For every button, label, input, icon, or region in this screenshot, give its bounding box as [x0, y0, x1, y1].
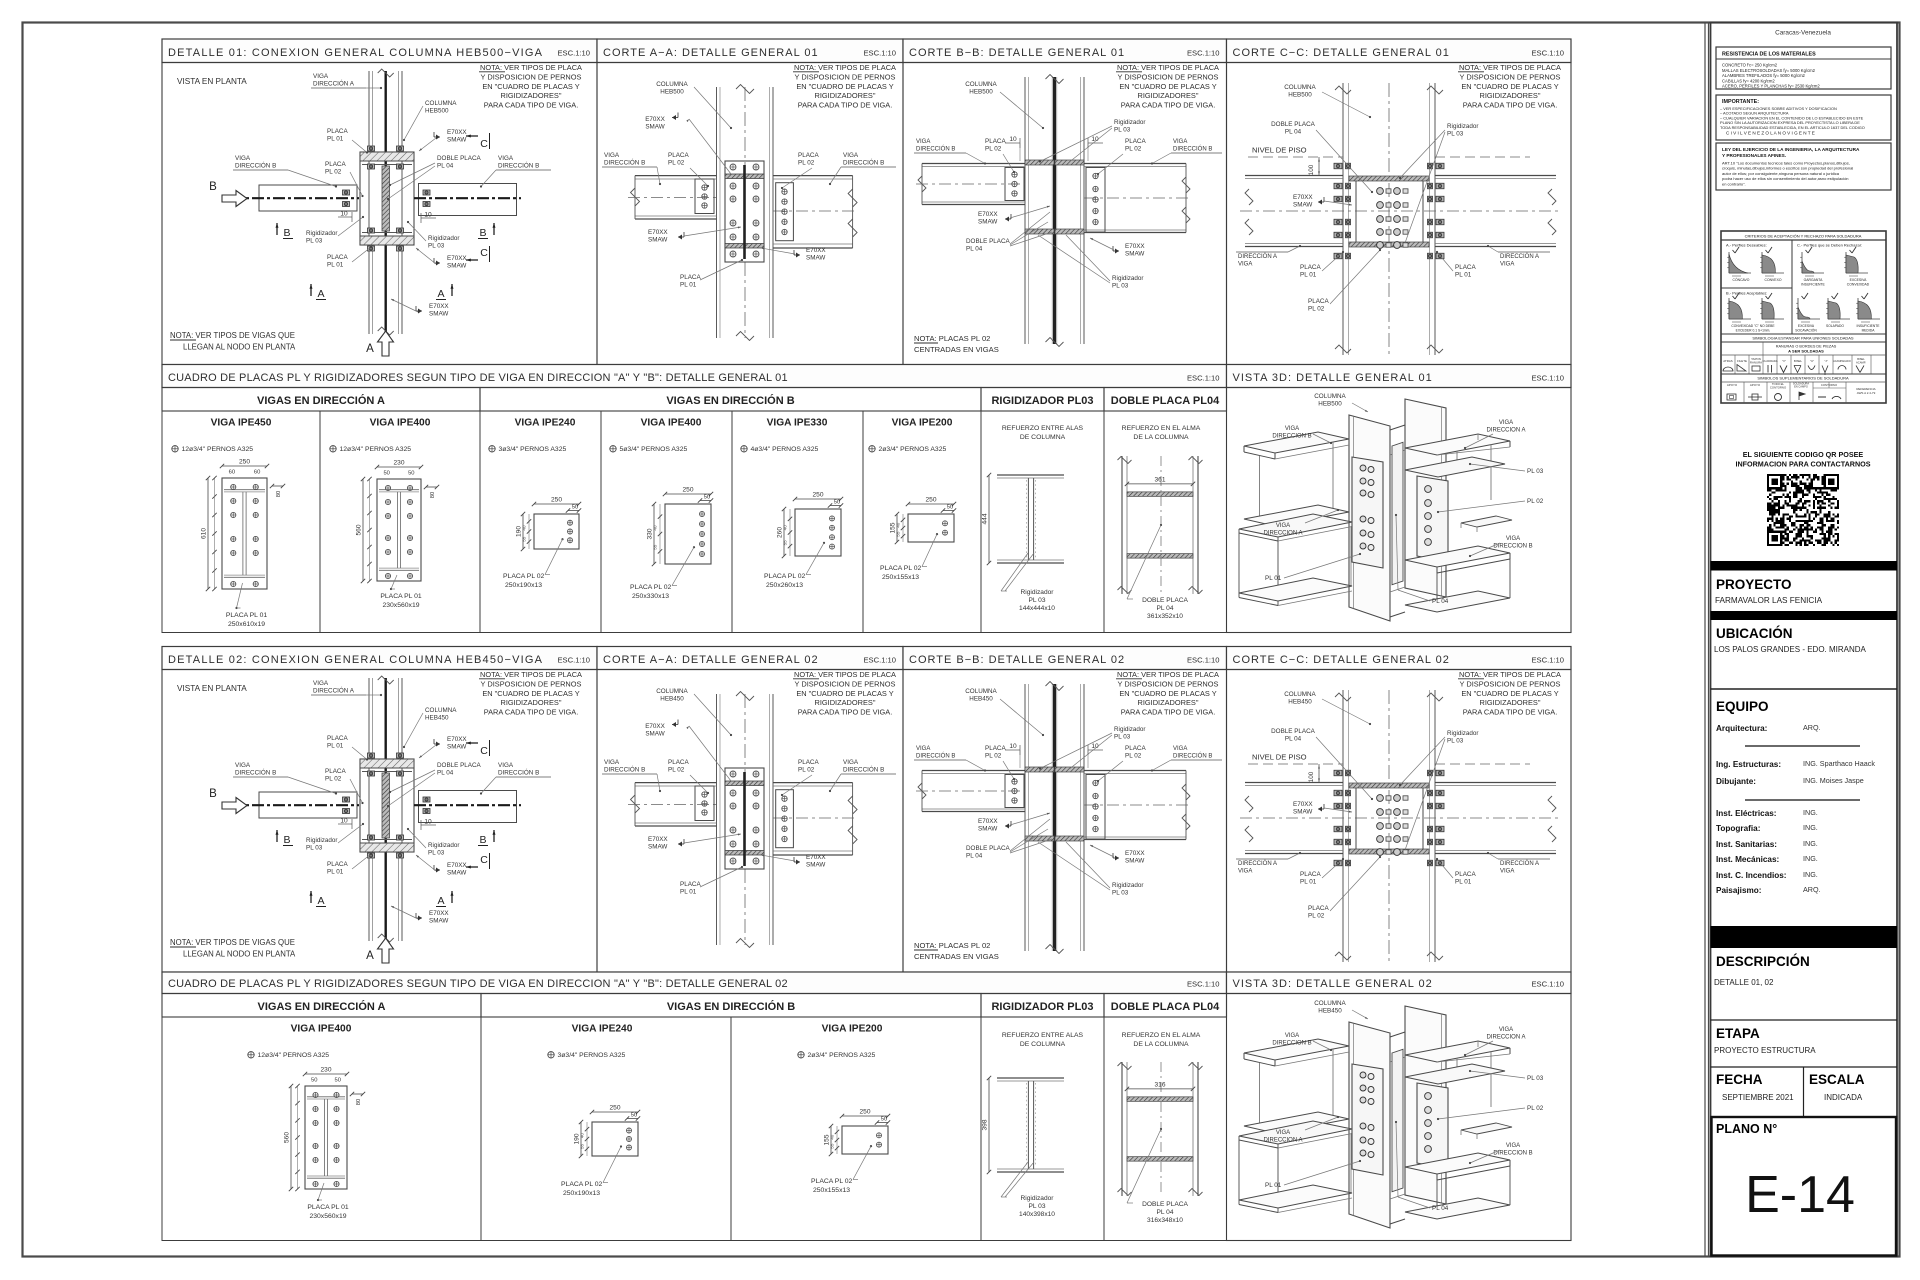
- hex bolts on placa PL01 bottom: [368, 835, 375, 840]
- svg-text:55: 55: [522, 536, 527, 542]
- beam top flange left (corte C-C): [1245, 175, 1343, 177]
- svg-text:VIGA IPE200: VIGA IPE200: [892, 418, 953, 429]
- weld profiles C row 1: [1806, 250, 1809, 253]
- svg-text:PLACA: PLACA: [327, 861, 348, 868]
- svg-text:SMAW: SMAW: [806, 862, 825, 869]
- lower-left shelf plate PL03 (3d): [1239, 1121, 1352, 1144]
- nivel de piso dashed line: [1248, 763, 1343, 765]
- section mark B left: [276, 223, 278, 235]
- svg-text:NOTA: VER TIPOS DE VIGAS: NOTA: VER TIPOS DE VIGAS QUE: [170, 938, 295, 947]
- svg-text:55: 55: [896, 531, 901, 537]
- svg-text:PL 01: PL 01: [327, 869, 344, 876]
- hex bolts left beam: [343, 190, 350, 195]
- label rigidizador cell: [1001, 553, 1028, 591]
- svg-text:ACAMPANADO: ACAMPANADO: [1833, 360, 1851, 363]
- svg-text:HEB450: HEB450: [660, 696, 684, 703]
- column web dark hatched (corte B-B): [1053, 684, 1056, 951]
- column flange pair left: [1121, 1062, 1123, 1196]
- svg-text:RESISTENCIA DE LOS MATERIAL: RESISTENCIA DE LOS MATERIALES: [1722, 52, 1816, 58]
- svg-text:PLACA: PLACA: [680, 274, 701, 281]
- svg-text:PLACA PL 02: PLACA PL 02: [561, 1181, 603, 1188]
- column break marks: [378, 676, 394, 684]
- title block frame: [1711, 23, 1898, 1257]
- svg-text:RIGIDIZADORES": RIGIDIZADORES": [1138, 91, 1199, 100]
- svg-text:PARA CADA TIPO DE VIGA.: PARA CADA TIPO DE VIGA.: [1463, 708, 1558, 717]
- label rigidizador cell: [1001, 1162, 1028, 1197]
- svg-text:PL 03: PL 03: [1527, 468, 1544, 475]
- right plate PL02 with bolts (3d): [1417, 1083, 1448, 1169]
- dimension 250 top: [534, 503, 579, 505]
- dimension height left: [896, 514, 898, 542]
- svg-text:250: 250: [925, 497, 936, 504]
- svg-text:50: 50: [572, 505, 578, 511]
- svg-text:DIRECCIÓN B: DIRECCIÓN B: [498, 768, 539, 777]
- svg-text:SOLAPADO: SOLAPADO: [1826, 324, 1844, 328]
- svg-text:PLACA: PLACA: [325, 161, 346, 168]
- hex bolts on right column flange (corte C-C): [1428, 163, 1433, 169]
- svg-text:RIGIDIZADORES": RIGIDIZADORES": [1480, 91, 1541, 100]
- section mark B left: [276, 830, 278, 842]
- svg-text:EN "CUADRO DE PLACAS Y: EN "CUADRO DE PLACAS Y: [1461, 689, 1558, 698]
- beam direction B left center line (dark): [231, 197, 359, 199]
- placa PL02 right bolts (corte B-B): [1086, 775, 1105, 840]
- svg-text:50: 50: [311, 1078, 317, 1084]
- svg-text:PARA CADA TIPO DE VIGA.: PARA CADA TIPO DE VIGA.: [1121, 101, 1216, 110]
- row2 vista3d frame: [1227, 388, 1572, 633]
- svg-text:250: 250: [682, 487, 693, 494]
- svg-text:DIRECCIÓN B: DIRECCIÓN B: [916, 753, 955, 760]
- rigidizador strips top (hatched): [1025, 767, 1054, 772]
- svg-text:A: A: [317, 288, 324, 300]
- svg-text:VIGA IPE400: VIGA IPE400: [641, 418, 702, 429]
- svg-text:Y DISPOSICION DE PERNOS: Y DISPOSICION DE PERNOS: [795, 679, 896, 688]
- svg-text:VIGA: VIGA: [1499, 1027, 1513, 1033]
- svg-text:DIRECCIÓN A: DIRECCIÓN A: [313, 79, 355, 88]
- svg-text:NOTA: PLACAS PL 02: NOTA: PLACAS PL 02: [914, 334, 990, 343]
- svg-text:ING.: ING.: [1803, 839, 1818, 848]
- svg-text:ARQ.: ARQ.: [1803, 885, 1821, 894]
- svg-text:250: 250: [812, 492, 823, 499]
- center dashed line doble cell: [1160, 1062, 1162, 1196]
- svg-text:230x560x19: 230x560x19: [309, 1213, 346, 1220]
- svg-text:"V": "V": [1782, 359, 1786, 363]
- I-beam flanges inside plate: [224, 489, 265, 491]
- placa PL01 top (hatched): [360, 152, 414, 161]
- doble placa strips hatched: [1127, 492, 1193, 497]
- importante box: [1716, 95, 1891, 140]
- svg-text:Rigidizador: Rigidizador: [1112, 275, 1144, 282]
- svg-text:PL 04: PL 04: [1157, 605, 1174, 612]
- svg-text:BISEL: BISEL: [1857, 357, 1865, 361]
- svg-text:SMAW: SMAW: [1125, 858, 1144, 865]
- column flanges (corte A-A): [716, 87, 718, 338]
- beam right (corte B-B): [1084, 163, 1186, 165]
- svg-text:DIRECCION B: DIRECCION B: [1272, 1041, 1311, 1047]
- svg-text:80: 80: [356, 1099, 362, 1105]
- svg-text:CONVEXIDAD: CONVEXIDAD: [1847, 283, 1870, 287]
- beam flange welds hatched bottom: [725, 851, 764, 856]
- svg-text:10: 10: [424, 819, 432, 826]
- svg-text:NOTA: VER TIPOS DE PLACA: NOTA: VER TIPOS DE PLACA: [1117, 670, 1219, 679]
- svg-text:ETAPA: ETAPA: [1716, 1026, 1760, 1041]
- svg-text:560: 560: [284, 1132, 291, 1143]
- upper-right beam web (3d): [1490, 444, 1492, 500]
- svg-text:Y DISPOSICION DE PERNOS: Y DISPOSICION DE PERNOS: [1118, 72, 1219, 81]
- column break marks: [736, 85, 754, 94]
- svg-text:VIGA: VIGA: [604, 152, 620, 159]
- svg-text:VIGA: VIGA: [1276, 1130, 1290, 1136]
- svg-text:VIGA: VIGA: [1500, 262, 1514, 268]
- svg-text:PARA CADA TIPO DE VIGA.: PARA CADA TIPO DE VIGA.: [798, 708, 893, 717]
- rigidizador strips top (hatched): [1025, 160, 1054, 165]
- svg-text:ESC.1:10: ESC.1:10: [1187, 374, 1220, 383]
- svg-text:VIGA: VIGA: [1238, 869, 1252, 875]
- label placa: [237, 583, 243, 608]
- svg-text:PL 03: PL 03: [428, 243, 445, 250]
- row4 subheader RIGIDIZADOR PL03: [981, 994, 1104, 1018]
- svg-text:RIGIDIZADORES": RIGIDIZADORES": [501, 698, 562, 707]
- svg-text:en contrario".: en contrario".: [1722, 181, 1746, 186]
- beam bottom flange left (corte C-C): [1245, 850, 1343, 852]
- svg-text:CORTE B−B: DETALLE GENERAL: CORTE B−B: DETALLE GENERAL 01: [909, 47, 1125, 59]
- bolts web doubler (corte C-C): [1377, 795, 1384, 802]
- column flange pair left: [1121, 456, 1123, 594]
- svg-text:Topografia:: Topografia:: [1716, 824, 1760, 833]
- svg-text:144x444x10: 144x444x10: [1019, 605, 1055, 612]
- svg-text:NOTA: VER TIPOS DE PLACA: NOTA: VER TIPOS DE PLACA: [480, 670, 582, 679]
- simbolos suplementarios symbols: [1727, 394, 1736, 400]
- placa PL01 rect: [222, 478, 267, 589]
- svg-text:RIGIDIZADORES": RIGIDIZADORES": [501, 91, 562, 100]
- svg-text:NIVEL DE PISO: NIVEL DE PISO: [1252, 753, 1307, 762]
- svg-text:12ø3/4" PERNOS A325: 12ø3/4" PERNOS A325: [182, 446, 254, 453]
- svg-text:Y PROFESIONALES AFINES.: Y PROFESIONALES AFINES.: [1722, 153, 1786, 158]
- ley del ejercicio box: [1716, 143, 1891, 190]
- svg-text:DESCRIPCIÓN: DESCRIPCIÓN: [1716, 954, 1810, 969]
- column front flange (3d): [1349, 415, 1390, 621]
- beam center dashed (corte C-C): [1240, 210, 1560, 212]
- svg-text:PL 04: PL 04: [966, 246, 983, 253]
- svg-text:HEB500: HEB500: [1288, 92, 1312, 99]
- svg-text:250: 250: [239, 459, 250, 466]
- label placa dirB: [870, 1145, 872, 1147]
- svg-text:Arquitectura:: Arquitectura:: [1716, 724, 1767, 733]
- section mark A left: [310, 284, 312, 296]
- svg-text:PLACA PL 01: PLACA PL 01: [307, 1204, 349, 1211]
- hex bolts on left column flange (corte C-C): [1334, 163, 1342, 169]
- svg-text:CONTORNO: CONTORNO: [1770, 386, 1787, 390]
- dimension height left: [653, 504, 655, 564]
- nivel de piso dashed line: [1248, 156, 1343, 158]
- beam flange welds hatched top: [725, 174, 764, 179]
- panel header band: CORTE B−B: DETALLE GENERAL 01: [903, 39, 1227, 63]
- svg-text:CONCRETO f'c= 250 Kg/cm2: CONCRETO f'c= 250 Kg/cm2: [1722, 63, 1778, 68]
- svg-text:E70XX: E70XX: [429, 910, 449, 917]
- svg-text:DIRECCIÓN B: DIRECCIÓN B: [498, 161, 539, 170]
- column break marks: [736, 692, 754, 701]
- dimension width doble: [1127, 1088, 1193, 1090]
- label placa dirB: [823, 542, 825, 544]
- beam top flange left (corte C-C): [1245, 782, 1343, 784]
- hex bolts right beam: [423, 190, 430, 195]
- row4 subheader DOBLE PLACA PL04: [1104, 994, 1227, 1018]
- svg-text:HEB500: HEB500: [1318, 401, 1342, 408]
- placa PL02 rect: [665, 504, 711, 564]
- I-section rigidizador: [997, 1077, 1064, 1079]
- svg-text:CABILLAS fy= 4200 Kg/cm2: CABILLAS fy= 4200 Kg/cm2: [1722, 78, 1775, 83]
- section mark A left: [310, 891, 312, 903]
- svg-text:PLACA: PLACA: [1300, 871, 1321, 878]
- break marks doble cell: [1118, 1063, 1132, 1070]
- svg-text:230: 230: [320, 1067, 331, 1074]
- svg-text:VISTA EN PLANTA: VISTA EN PLANTA: [177, 684, 247, 693]
- row4 subheader VIGAS EN DIRECCION B: [481, 994, 981, 1018]
- simbolos suplementarios cells: [1743, 382, 1745, 403]
- rigidizador strip bottom hatched (corte C-C): [1349, 242, 1429, 247]
- svg-text:VIGA IPE240: VIGA IPE240: [515, 418, 576, 429]
- lower-left beam body (3d): [1238, 533, 1240, 593]
- svg-text:Inst. Sanitarias:: Inst. Sanitarias:: [1716, 840, 1777, 849]
- svg-text:Rigidizador: Rigidizador: [1112, 882, 1144, 889]
- I-section rigidizador: [997, 474, 1064, 476]
- hex bolts on placa PL01 top: [368, 753, 375, 758]
- qr code: [1767, 474, 1839, 546]
- svg-text:C: C: [480, 247, 488, 259]
- svg-text:E70XX: E70XX: [806, 247, 826, 254]
- placa PL02 right bolts (corte B-B): [1086, 168, 1105, 233]
- beam bottom flange right (corte C-C): [1435, 243, 1556, 245]
- column flanges (corte A-A): [716, 694, 718, 945]
- placa PL02 rect: [908, 514, 954, 542]
- svg-text:PL 04: PL 04: [1157, 1209, 1174, 1216]
- svg-text:PL 04: PL 04: [1285, 736, 1302, 743]
- bolts on plate: [231, 484, 236, 489]
- svg-text:316x348x10: 316x348x10: [1147, 1217, 1183, 1224]
- svg-text:SMAW: SMAW: [429, 918, 448, 925]
- svg-text:DE COLUMNA: DE COLUMNA: [1020, 1041, 1066, 1048]
- column back flange (3d): [1405, 399, 1446, 597]
- column flanges (corte C-C): [1342, 690, 1344, 962]
- svg-text:40: 40: [783, 525, 788, 531]
- svg-text:VIGA: VIGA: [1500, 869, 1514, 875]
- hex bolts on placa PL01 top: [368, 146, 375, 151]
- svg-text:COLUMNA: COLUMNA: [965, 81, 997, 88]
- column break marks: [378, 69, 394, 77]
- svg-text:PL 04: PL 04: [437, 770, 454, 777]
- upper-left beam web+bottom flange (3d): [1259, 1063, 1261, 1128]
- rigidizador strip top hatched (corte C-C): [1349, 176, 1429, 181]
- column flange pair right: [1197, 1062, 1199, 1196]
- right plate PL02 with bolts (3d): [1417, 476, 1448, 562]
- svg-text:Dibujante:: Dibujante:: [1716, 777, 1756, 786]
- svg-text:ESC.1:10: ESC.1:10: [863, 656, 896, 665]
- svg-text:316: 316: [1154, 1081, 1165, 1088]
- row2 subheader DOBLE PLACA PL04: [1104, 388, 1227, 412]
- svg-text:PL 03: PL 03: [1447, 738, 1464, 745]
- dimension 250 top: [665, 493, 711, 495]
- svg-text:SMAW: SMAW: [429, 311, 448, 318]
- beam direction B right (plan outline): [419, 184, 517, 216]
- svg-text:PL 03: PL 03: [1112, 283, 1129, 290]
- svg-text:PL 03: PL 03: [306, 845, 323, 852]
- svg-text:Rigidizador: Rigidizador: [428, 842, 460, 849]
- placa PL01 (center plate): [725, 768, 764, 869]
- row4 vista3d frame: [1227, 994, 1572, 1241]
- svg-text:A: A: [366, 343, 374, 355]
- column break marks (corte C-C): [1335, 86, 1351, 94]
- svg-text:SEPTIEMBRE 2021: SEPTIEMBRE 2021: [1722, 1093, 1794, 1102]
- svg-text:DOBLE PLACA: DOBLE PLACA: [966, 238, 1011, 245]
- web panel box between flanges: [1356, 785, 1423, 852]
- svg-text:SMAW: SMAW: [447, 263, 466, 270]
- svg-text:Y DISPOSICION DE PERNOS: Y DISPOSICION DE PERNOS: [481, 679, 582, 688]
- svg-text:B: B: [209, 788, 217, 800]
- beam left (corte B-B): [922, 163, 1025, 165]
- svg-text:ARQ.: ARQ.: [1803, 723, 1821, 732]
- doubler plate PL04 on web (3d): [1392, 1049, 1403, 1191]
- svg-text:250x155x13: 250x155x13: [813, 1187, 850, 1194]
- svg-text:5ø3/4" PERNOS A325: 5ø3/4" PERNOS A325: [620, 446, 688, 453]
- svg-text:55: 55: [580, 1143, 585, 1149]
- beam direction B right (corte A-A): [773, 782, 853, 784]
- svg-text:UBICACIÓN: UBICACIÓN: [1716, 626, 1793, 641]
- dimension 250 top: [592, 1111, 638, 1113]
- weld symbols row: [1723, 367, 1733, 371]
- bolts on plate dirB: [830, 516, 835, 521]
- svg-text:PL 01: PL 01: [1455, 272, 1472, 279]
- svg-text:ING.: ING.: [1803, 854, 1818, 863]
- placa PL02 left bolts (corte B-B): [1005, 168, 1024, 201]
- label doble placa cell: [1160, 524, 1162, 526]
- svg-text:140x398x10: 140x398x10: [1019, 1211, 1055, 1218]
- svg-text:PLACA: PLACA: [1125, 745, 1146, 752]
- svg-text:CORTE A−A: DETALLE GENERAL: CORTE A−A: DETALLE GENERAL 02: [603, 654, 819, 666]
- svg-text:HEB450: HEB450: [425, 715, 449, 722]
- svg-text:3ø3/4" PERNOS A325: 3ø3/4" PERNOS A325: [558, 1052, 626, 1059]
- svg-text:VIGAS EN DIRECCIÓN A: VIGAS EN DIRECCIÓN A: [258, 1000, 386, 1013]
- svg-text:A: A: [437, 895, 444, 907]
- column flanges (corte C-C): [1342, 83, 1344, 355]
- doble placa strips hatched: [1127, 1097, 1193, 1102]
- svg-text:E70XX: E70XX: [447, 255, 467, 262]
- svg-text:250x190x13: 250x190x13: [505, 582, 542, 589]
- svg-text:55: 55: [830, 1143, 835, 1149]
- svg-text:PL 03: PL 03: [428, 850, 445, 857]
- simbologia estandar band: [1721, 333, 1886, 335]
- svg-text:VIGA: VIGA: [916, 139, 930, 145]
- svg-text:RIGIDIZADORES": RIGIDIZADORES": [1480, 698, 1541, 707]
- svg-text:VIGA: VIGA: [1276, 523, 1290, 529]
- svg-text:PLACA: PLACA: [1308, 905, 1329, 912]
- svg-text:RIGIDIZADOR PL03: RIGIDIZADOR PL03: [991, 1001, 1093, 1013]
- beam bottom flange left (corte C-C): [1245, 243, 1343, 245]
- svg-text:VIGA: VIGA: [843, 152, 859, 159]
- svg-text:E70XX: E70XX: [1293, 801, 1313, 808]
- svg-text:PL 01: PL 01: [680, 282, 697, 289]
- svg-text:C: C: [480, 745, 488, 757]
- panel header band: CORTE B−B: DETALLE GENERAL 02: [903, 647, 1227, 670]
- dimension 50 top right: [877, 1122, 888, 1124]
- svg-text:DIRECCIÓN A: DIRECCIÓN A: [1500, 860, 1539, 867]
- svg-text:A SER SOLDADAS: A SER SOLDADAS: [1788, 349, 1824, 354]
- bolts web doubler (corte C-C): [1377, 188, 1384, 195]
- svg-text:Ing. Estructuras:: Ing. Estructuras:: [1716, 760, 1781, 769]
- column web dark (corte A-A): [743, 772, 746, 866]
- svg-text:HEB450: HEB450: [969, 696, 993, 703]
- svg-text:PL 02: PL 02: [1308, 306, 1325, 313]
- dimension height left: [580, 1122, 582, 1156]
- svg-text:40: 40: [896, 522, 901, 528]
- svg-text:B: B: [283, 834, 290, 846]
- svg-text:CRITERIOS DE ACEPTACIÓN Y: CRITERIOS DE ACEPTACIÓN Y RECHAZO PARA S…: [1745, 234, 1862, 239]
- svg-text:Inst. C. Incendios:: Inst. C. Incendios:: [1716, 871, 1787, 880]
- svg-text:Rigidizador: Rigidizador: [1021, 1195, 1055, 1202]
- svg-text:B.- Perfiles Aceptables:: B.- Perfiles Aceptables:: [1726, 291, 1767, 296]
- svg-text:PL 03: PL 03: [1114, 127, 1131, 134]
- svg-text:PL 03: PL 03: [1114, 734, 1131, 741]
- svg-text:PL 02: PL 02: [668, 767, 685, 774]
- svg-text:COLUMNA: COLUMNA: [656, 81, 688, 88]
- svg-text:DETALLE 01: CONEXION GENERA: DETALLE 01: CONEXION GENERAL COLUMNA HEB…: [168, 47, 543, 59]
- svg-text:NOTA: VER TIPOS DE PLACA: NOTA: VER TIPOS DE PLACA: [480, 63, 582, 72]
- svg-text:ESC.1:10: ESC.1:10: [1531, 980, 1564, 989]
- dimension 250 top: [842, 1115, 888, 1117]
- dimension 250 top: [795, 498, 841, 500]
- svg-text:DOBLE PLACA: DOBLE PLACA: [1142, 1201, 1188, 1208]
- svg-text:250x190x13: 250x190x13: [563, 1190, 600, 1197]
- svg-text:PL 04: PL 04: [437, 163, 454, 170]
- svg-text:PL 04: PL 04: [1432, 1205, 1449, 1212]
- svg-text:250x610x19: 250x610x19: [228, 621, 265, 628]
- svg-text:PL 02: PL 02: [1308, 913, 1325, 920]
- svg-text:250: 250: [609, 1105, 620, 1112]
- center dashed line doble cell: [1160, 456, 1162, 594]
- svg-text:SMAW: SMAW: [648, 237, 667, 244]
- svg-text:SOCAVACIÓN: SOCAVACIÓN: [1795, 328, 1817, 333]
- svg-text:PL 01: PL 01: [1265, 1182, 1282, 1189]
- svg-text:SMAW: SMAW: [447, 744, 466, 751]
- hex bolts on right column flange (corte C-C): [1428, 770, 1433, 776]
- beam break marks (corte C-C): [1245, 189, 1253, 205]
- svg-text:DOBLE PLACA: DOBLE PLACA: [1271, 121, 1316, 128]
- column HEB500 flanges (plan): [368, 71, 370, 334]
- svg-text:MEDIDA: MEDIDA: [1862, 329, 1876, 333]
- I-beam flanges inside plate: [307, 1096, 345, 1098]
- svg-text:PL 01: PL 01: [1300, 272, 1317, 279]
- svg-text:ESC.1:10: ESC.1:10: [1531, 656, 1564, 665]
- svg-text:E70XX: E70XX: [447, 862, 467, 869]
- svg-text:C: C: [480, 854, 488, 866]
- svg-text:CORTE A−A: DETALLE GENERAL: CORTE A−A: DETALLE GENERAL 01: [603, 47, 819, 59]
- svg-text:EN "CUADRO DE PLACAS Y: EN "CUADRO DE PLACAS Y: [796, 82, 893, 91]
- svg-text:C.- Perfiles que se Deben Rech: C.- Perfiles que se Deben Rechazar:: [1797, 243, 1862, 248]
- svg-text:PL 01: PL 01: [327, 136, 344, 143]
- svg-text:DIRECCION B: DIRECCION B: [1493, 544, 1532, 550]
- svg-text:VIGA: VIGA: [1173, 746, 1187, 752]
- bolts on plate dirB: [700, 512, 705, 517]
- svg-text:DIRECCIÓN B: DIRECCIÓN B: [235, 161, 276, 170]
- dimension 250 top: [908, 503, 954, 505]
- svg-text:PL 04: PL 04: [966, 853, 983, 860]
- svg-text:PL 03: PL 03: [1029, 597, 1046, 604]
- svg-text:250: 250: [859, 1109, 870, 1116]
- svg-text:PL 02: PL 02: [668, 160, 685, 167]
- svg-text:80: 80: [430, 492, 436, 498]
- svg-text:40: 40: [653, 525, 658, 531]
- beam direction B left center line (dark): [231, 804, 359, 806]
- svg-text:Y DISPOSICION DE PERNOS: Y DISPOSICION DE PERNOS: [1118, 679, 1219, 688]
- dimension height left: [783, 509, 785, 556]
